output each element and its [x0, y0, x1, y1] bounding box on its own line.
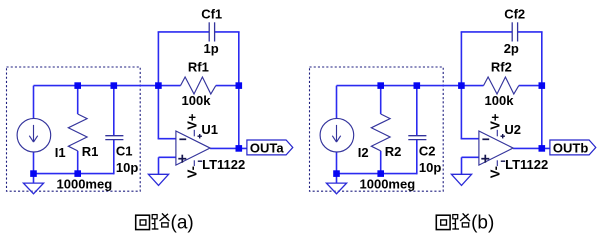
node R1 top junction: [74, 82, 81, 89]
node C1 top junction: [111, 82, 118, 89]
caption kanji "kai" (circuit): [136, 215, 150, 229]
wire bottom rail: [337, 173, 417, 175]
wire inverting input vertical: [157, 86, 159, 139]
dashed box around input network 1: [7, 67, 141, 191]
svg-text:100k: 100k: [182, 93, 212, 108]
svg-text:OUTb: OUTb: [553, 141, 588, 156]
wire top rail: [337, 85, 462, 87]
wire ground stub below bottom rail: [336, 174, 338, 184]
wire output: [513, 147, 550, 149]
op-amp supply minus mark: [501, 160, 505, 162]
svg-text:V-: V-: [184, 166, 199, 178]
svg-text:1000meg: 1000meg: [360, 176, 416, 191]
wire Rf2 right lead: [519, 85, 542, 87]
wire feedback left vertical: [460, 32, 462, 86]
feedback capacitor Cf2: [511, 22, 513, 41]
svg-text:1000meg: 1000meg: [57, 176, 113, 191]
wire inverting input vertical: [460, 86, 462, 139]
wire Rf1 right lead: [216, 85, 239, 87]
svg-text:V-: V-: [487, 166, 502, 178]
wire feedback right vertical: [541, 32, 543, 148]
wire noninverting input horizontal: [159, 156, 176, 158]
node bottom rail R junction: [377, 170, 384, 177]
current source I2: [320, 118, 354, 152]
svg-text:(b): (b): [471, 213, 494, 234]
wire noninverting input ground drop: [158, 157, 160, 174]
wire inverting input horizontal: [461, 138, 479, 140]
wire R1 top lead: [77, 86, 79, 114]
wire Rf1 left lead: [158, 85, 180, 87]
op-amp inverting input minus sign: [482, 138, 489, 140]
wire ground stub below bottom rail: [33, 174, 35, 184]
node bottom rail left junction: [333, 170, 340, 177]
svg-text:Rf1: Rf1: [188, 59, 209, 74]
wire feedback top left segment: [461, 31, 513, 33]
op-amp V+ pin stub: [193, 130, 195, 137]
svg-text:I2: I2: [358, 145, 369, 160]
node R2 top junction: [377, 82, 384, 89]
node feedback right junction: [236, 82, 243, 89]
svg-text:LT1122: LT1122: [505, 157, 548, 172]
output flag OUTb: [550, 140, 596, 155]
node C2 top junction: [414, 82, 421, 89]
caption kanji "ro" (road): [152, 213, 170, 229]
op-amp U1 triangle: [176, 131, 210, 165]
caption kanji "kai" (circuit): [436, 215, 450, 229]
svg-text:V+: V+: [184, 113, 199, 130]
feedback resistor Rf2: [484, 77, 519, 94]
svg-text:LT1122: LT1122: [202, 157, 245, 172]
wire C1 top lead: [113, 86, 115, 136]
svg-text:C1: C1: [116, 143, 133, 158]
wire output: [210, 147, 247, 149]
svg-text:10p: 10p: [419, 160, 441, 175]
feedback resistor Rf1: [181, 77, 216, 94]
capacitor C1: [105, 135, 123, 137]
capacitor C2: [408, 135, 426, 137]
op-amp V- pin stub: [193, 160, 195, 166]
resistor R2: [371, 114, 390, 151]
wire R2 top lead: [380, 86, 382, 114]
svg-text:R2: R2: [385, 144, 402, 159]
wire feedback top right segment: [215, 31, 240, 33]
svg-text:10p: 10p: [116, 160, 138, 175]
wire R2 bottom lead: [380, 151, 382, 174]
node feedback right junction: [539, 82, 546, 89]
dashed box around input network 2: [310, 67, 444, 191]
svg-text:I1: I1: [55, 145, 66, 160]
wire feedback top left segment: [158, 31, 210, 33]
svg-text:2p: 2p: [504, 41, 519, 56]
wire noninverting input ground drop: [461, 157, 463, 174]
ground at noninverting input: [451, 174, 471, 185]
wire top rail: [34, 85, 159, 87]
wire current source bottom lead: [33, 152, 35, 174]
op-amp noninverting input plus sign: [178, 158, 186, 160]
op-amp supply plus mark: [198, 135, 202, 137]
svg-text:Cf1: Cf1: [201, 7, 222, 22]
resistor R1: [68, 114, 87, 151]
svg-text:V+: V+: [487, 113, 502, 130]
svg-text:100k: 100k: [485, 93, 515, 108]
op-amp noninverting input plus sign: [481, 158, 489, 160]
node output junction: [539, 145, 546, 152]
wire current source bottom lead: [336, 152, 338, 174]
wire inverting input horizontal: [158, 138, 176, 140]
wire current source top lead: [336, 86, 338, 119]
op-amp V+ pin stub: [496, 130, 498, 137]
node feedback left junction: [155, 82, 162, 89]
wire C1 bottom lead: [113, 140, 115, 175]
svg-text:U1: U1: [201, 122, 218, 137]
wire noninverting input horizontal: [462, 156, 479, 158]
op-amp inverting input minus sign: [179, 138, 186, 140]
wire C2 bottom lead: [416, 140, 418, 175]
svg-text:Cf2: Cf2: [504, 7, 525, 22]
output flag OUTa: [247, 140, 293, 155]
svg-text:Rf2: Rf2: [491, 59, 512, 74]
wire R1 bottom lead: [77, 151, 79, 174]
wire Rf2 left lead: [461, 85, 483, 87]
svg-text:R1: R1: [82, 144, 99, 159]
svg-text:1p: 1p: [204, 41, 219, 56]
svg-text:OUTa: OUTa: [250, 141, 284, 156]
wire feedback left vertical: [157, 32, 159, 86]
feedback capacitor Cf1: [208, 22, 210, 41]
node bottom rail R junction: [74, 170, 81, 177]
wire feedback right vertical: [238, 32, 240, 148]
wire current source top lead: [33, 86, 35, 119]
caption kanji "ro" (road): [452, 213, 470, 229]
svg-text:(a): (a): [171, 213, 194, 234]
wire C2 top lead: [416, 86, 418, 136]
svg-text:U2: U2: [504, 122, 521, 137]
wire bottom rail: [34, 173, 114, 175]
ground under current source rail: [23, 183, 43, 194]
op-amp V- pin stub: [496, 160, 498, 166]
ground under current source rail: [326, 183, 346, 194]
node bottom rail left junction: [30, 170, 37, 177]
wire feedback top right segment: [518, 31, 543, 33]
node output junction: [236, 145, 243, 152]
ground at noninverting input: [148, 174, 168, 185]
current source I1: [17, 118, 51, 152]
node feedback left junction: [458, 82, 465, 89]
svg-text:C2: C2: [419, 143, 436, 158]
op-amp supply minus mark: [198, 160, 202, 162]
op-amp U2 triangle: [479, 131, 513, 165]
op-amp supply plus mark: [501, 135, 505, 137]
